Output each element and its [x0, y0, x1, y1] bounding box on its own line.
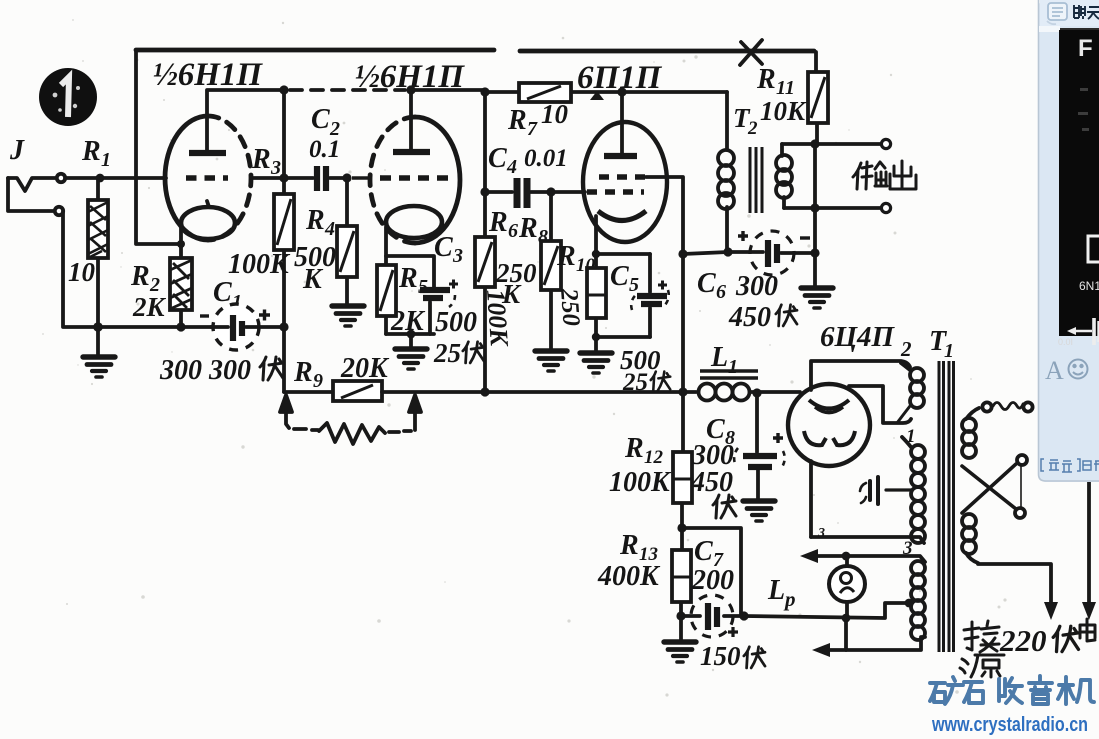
wire: mains lead bottom with down arrow — [978, 564, 1058, 620]
svg-text:450: 450 — [728, 302, 771, 333]
ground (C6/output) — [813, 253, 817, 286]
label mains source (Chinese) — [960, 655, 1004, 677]
T1 winding E (primary bottom) — [962, 514, 978, 563]
video white frame — [1088, 236, 1099, 262]
resistor R3 — [274, 194, 294, 250]
capacitor C3 (electrolytic bypass) — [420, 280, 458, 335]
node: C2 / R4 / V2 grid junction — [342, 173, 351, 182]
wire: top bus (left section) — [136, 48, 494, 53]
capacitor C8 (electrolytic filter) — [734, 393, 785, 499]
wire: output bottom line — [784, 206, 880, 210]
svg-text:6: 6 — [508, 220, 518, 242]
svg-text:6П1П: 6П1П — [577, 60, 663, 96]
wire: V2 cathode lead and R5/C3 top rail — [386, 227, 434, 288]
svg-text:300 300: 300 300 — [159, 355, 251, 386]
svg-text:½6Н1П: ½6Н1П — [153, 57, 263, 93]
wire: input signal line to V1 grid — [65, 176, 166, 180]
svg-text:R: R — [556, 241, 576, 272]
output terminal top — [881, 139, 890, 148]
triode V1 (1/2 6N1P) envelope — [165, 116, 208, 240]
svg-text:L: L — [710, 342, 728, 373]
svg-text:R: R — [624, 433, 644, 464]
wire: plate node column — [282, 90, 286, 392]
HV center-tap lead and chassis symbol — [860, 477, 911, 504]
label output (Chinese) — [853, 161, 916, 189]
svg-text:C: C — [311, 104, 330, 135]
node: R10 bottom junction — [592, 333, 600, 341]
choke L1 core — [700, 371, 758, 378]
svg-text:0.1: 0.1 — [309, 136, 340, 163]
svg-text:100K: 100K — [481, 288, 514, 348]
triode V2 (1/2 6N1P) envelope — [370, 117, 415, 243]
wire: mains lead right with down arrow — [1082, 482, 1096, 620]
svg-text:R: R — [305, 205, 325, 236]
node: cathode/R10 junction — [592, 250, 600, 258]
wire: V4 second plate link — [849, 386, 911, 423]
wire: lamp bottom to 6.3V line — [844, 618, 848, 650]
capacitor C4 — [485, 178, 551, 208]
svg-text:2: 2 — [747, 118, 758, 139]
ground (V3 cathode) — [594, 337, 598, 351]
output terminal bottom — [881, 203, 890, 212]
node: R1 top junction — [96, 174, 105, 183]
V1 anode — [189, 150, 226, 156]
wire: V4 cathode lead down — [809, 461, 813, 537]
transformer T2 primary winding — [718, 92, 734, 252]
arrow line (heater feed, left arrow) — [800, 549, 925, 563]
break mark X on top bus — [740, 40, 762, 65]
svg-text:4: 4 — [324, 218, 335, 240]
toolbar smiley icon — [1069, 360, 1088, 379]
svg-text:100K: 100K — [609, 467, 672, 498]
svg-text:C: C — [610, 261, 629, 292]
svg-text:100K: 100K — [228, 249, 291, 280]
wire: V2 anode lead up — [409, 90, 413, 149]
svg-text:10K: 10K — [760, 96, 807, 126]
V3 anode — [604, 153, 637, 159]
node: R13 bottom / C7 junction — [676, 611, 685, 620]
svg-text:12: 12 — [644, 447, 664, 468]
svg-text:R: R — [398, 263, 418, 294]
V3 control grid (dashed) — [587, 189, 644, 195]
wire: output top line — [782, 142, 880, 146]
chat panel title text (Chinese) — [1074, 5, 1099, 19]
T1 winding C (6.3V filament) — [911, 561, 925, 640]
node: C6 right junction — [810, 248, 819, 257]
svg-text:R: R — [488, 207, 508, 238]
svg-text:p: p — [783, 587, 796, 611]
node: cathode/top-bus tie junction — [177, 240, 185, 248]
wire: lamp bottom lead — [845, 602, 849, 617]
fuse and plug (mains top) — [982, 402, 1032, 411]
node: V2 anode top junction — [406, 85, 415, 94]
node: R1 bottom / ground junction — [93, 322, 103, 332]
ground (R8) — [535, 351, 567, 371]
V4 anode hooks — [804, 431, 826, 445]
svg-text:3: 3 — [452, 245, 463, 267]
wire: heater line to lamp and T1 — [744, 603, 909, 618]
V2 anode — [393, 149, 430, 155]
pilot lamp Lp — [829, 566, 865, 602]
wire: V4 plate lead to T1 top winding — [811, 361, 910, 390]
watermark logo text (Chinese) — [930, 676, 1094, 704]
svg-text:F: F — [1078, 35, 1093, 62]
wire: V1 cathode lead down to R2 — [179, 228, 183, 247]
svg-text:1: 1 — [944, 340, 954, 362]
resistor R13 — [672, 528, 691, 616]
svg-text:7: 7 — [527, 118, 538, 140]
value glyph V (C1) — [260, 357, 283, 380]
resistor R5 (cathode bias) — [377, 256, 396, 334]
video component glyph — [1067, 318, 1099, 345]
svg-text:200: 200 — [691, 565, 734, 596]
ground (input stage) — [96, 327, 100, 355]
svg-text:0.0I: 0.0I — [1058, 337, 1073, 347]
resistor R10 — [587, 254, 606, 337]
node: screen column on bottom bus — [678, 387, 687, 396]
node: output top junction — [810, 139, 819, 148]
screen bus wire (second rail) — [485, 90, 727, 94]
svg-text:2: 2 — [900, 337, 912, 361]
resistor R2 (hatched cathode resistor) — [170, 247, 192, 327]
svg-text:300: 300 — [735, 271, 778, 302]
choke L1 winding — [683, 384, 800, 401]
ad text line — [1041, 459, 1099, 472]
hum-balance arrow left — [280, 395, 292, 428]
svg-text:R: R — [756, 64, 776, 95]
svg-text:250: 250 — [555, 287, 585, 328]
svg-text:www.crystalradio.cn: www.crystalradio.cn — [931, 714, 1088, 736]
wire: R10/C5 bottom rail — [596, 335, 650, 339]
svg-text:C: C — [488, 143, 507, 174]
svg-text:1: 1 — [101, 149, 111, 171]
transformer T1 core — [939, 361, 954, 652]
svg-text:K: K — [302, 264, 324, 295]
node: output bottom junction — [810, 203, 819, 212]
svg-text:R: R — [293, 357, 313, 388]
bottom bus wire (left) — [284, 390, 333, 394]
svg-text:R: R — [518, 213, 538, 244]
svg-text:25: 25 — [622, 369, 648, 396]
svg-text:R: R — [619, 530, 639, 561]
wire: V3 anode lead up — [620, 92, 624, 153]
label connect 220V mains (Chinese) — [964, 621, 999, 652]
logo badge (black circle with figure) — [39, 68, 97, 126]
svg-text:C: C — [697, 268, 716, 299]
node: lamp top junction — [842, 552, 851, 561]
wire: C6 rail from screen column — [683, 252, 728, 254]
svg-text:2K: 2K — [132, 292, 167, 322]
chat panel background — [1038, 0, 1099, 482]
svg-text:C: C — [694, 536, 713, 567]
V4 filament arcs — [809, 400, 849, 409]
svg-text:6: 6 — [716, 281, 726, 303]
wire: V2 plate to C4 column — [411, 88, 485, 92]
wire: lamp top lead — [845, 556, 849, 566]
ground (R13/C7) — [679, 616, 683, 640]
svg-text:150: 150 — [700, 641, 741, 671]
svg-text:4: 4 — [506, 156, 517, 178]
hum-balance dashed/wavy link — [294, 429, 318, 430]
resistor R11 — [808, 52, 828, 144]
capacitor C1 (electrolytic, dashed circle) — [200, 304, 284, 350]
wire: grid node to plate-node column — [251, 176, 284, 180]
svg-text:L: L — [767, 575, 785, 606]
node: C7 output junction — [739, 611, 748, 620]
node: plate node at signal line — [279, 173, 288, 182]
svg-text:3: 3 — [270, 157, 281, 179]
svg-text:500: 500 — [435, 307, 477, 338]
ground (R4) — [332, 306, 364, 326]
chat panel titlebar icon — [1047, 3, 1067, 24]
node: R5/C3 ground junction — [407, 330, 416, 339]
capacitor C7 (electrolytic, dashed circle) — [681, 528, 744, 637]
bottom bus wire (center) — [382, 390, 683, 394]
capacitor C5 (electrolytic bypass) — [631, 254, 669, 337]
node: R6 lead on bus — [480, 387, 489, 396]
node: C1 plus junction — [279, 322, 288, 331]
node: C8 tap on B+ line — [752, 388, 761, 397]
T1 winding A (rectifier filament) — [883, 363, 924, 423]
node: R8 top junction — [546, 187, 555, 196]
svg-text:9: 9 — [313, 370, 323, 392]
T1 winding D (primary top) — [962, 408, 979, 458]
wire: jack sleeve down to ground rail — [63, 211, 97, 327]
wire: cathode ground rail to C1 — [98, 325, 211, 329]
node: screen column / C6 rail junction — [678, 249, 687, 258]
svg-text:450: 450 — [690, 467, 733, 498]
stray mark under V3 label — [590, 91, 604, 100]
svg-text:C: C — [213, 277, 232, 308]
wire: output right column — [813, 144, 817, 254]
resistor R7 (in screen bus) — [519, 83, 571, 102]
wire: V3 cathode lead down — [596, 216, 650, 254]
wire: cathode to T1 HV tap — [811, 537, 924, 543]
wire: C4 to V3 grid — [551, 190, 585, 194]
node: lamp bottom junction — [842, 614, 851, 623]
svg-text:R: R — [81, 136, 101, 167]
video window (black) — [1059, 30, 1099, 336]
rectifier tube V4 (6Ts4P) envelope — [788, 384, 870, 466]
capacitor C2 — [284, 166, 347, 191]
V3 screen grid (dashed) with lead right — [599, 174, 646, 180]
capacitor C6 (electrolytic, dashed circle) — [728, 231, 815, 275]
arrow line (6.3V bottom, left arrow) — [812, 637, 925, 657]
resistor R4 (grid leak) — [337, 178, 357, 305]
svg-text:5: 5 — [629, 274, 639, 296]
svg-text:10: 10 — [68, 257, 96, 287]
V1 grid (dashed) — [186, 175, 228, 181]
resistor R6 — [475, 237, 495, 287]
wire: V1 anode lead up and right — [207, 90, 284, 150]
V2 cathode (oval) — [386, 206, 442, 238]
ground (V2 cathode) — [409, 334, 413, 347]
svg-text:400K: 400K — [597, 561, 661, 592]
transformer T2 core — [750, 147, 762, 213]
svg-text:220: 220 — [999, 623, 1047, 658]
svg-text:A: A — [1045, 356, 1064, 385]
V2 grid (dashed) — [352, 176, 372, 179]
wire: dashed bus V1 plate to V2 plate — [290, 88, 405, 92]
resistor R12 — [673, 392, 692, 528]
T1 winding B (HV secondary) — [902, 437, 925, 543]
svg-text:C: C — [434, 232, 453, 263]
resistor R8 — [541, 192, 561, 350]
node: C4 left junction — [480, 187, 489, 196]
svg-text:1: 1 — [728, 356, 738, 378]
node: V3 anode top junction — [617, 87, 626, 96]
wire: C4 column (V2 plate feed) — [483, 92, 487, 392]
resistor R1 (hatched) — [88, 178, 108, 327]
ground (C8) — [743, 501, 775, 521]
transformer T2 secondary winding — [776, 144, 792, 208]
svg-text:R: R — [507, 105, 527, 136]
svg-text:25: 25 — [433, 338, 461, 368]
svg-text:0.01: 0.01 — [524, 145, 568, 172]
svg-text:J: J — [9, 135, 25, 166]
svg-text:R: R — [130, 261, 150, 292]
V3 cathode (arc) — [598, 211, 646, 221]
wire: screen column down to bus — [681, 254, 685, 392]
node: C4 left column top — [480, 87, 489, 96]
V1 cathode (oval) — [181, 207, 235, 239]
resistor R9 (in bus) — [333, 381, 382, 401]
node: V1 plate node top — [279, 85, 288, 94]
node: R2 bottom junction — [176, 322, 185, 331]
pentode V3 (6P1P) envelope — [583, 122, 667, 242]
node: R12/R13/C7 junction — [677, 523, 686, 532]
video faint marks — [1078, 88, 1089, 131]
voltage selector cross — [962, 455, 1027, 518]
hum-balance arrow right — [409, 395, 421, 430]
svg-text:6Ц4П: 6Ц4П — [820, 321, 896, 353]
wire: top bus left drop and tie to V1 cathode — [136, 51, 181, 244]
input jack plug — [8, 174, 65, 215]
node: C6 rail / primary bottom junction — [723, 247, 732, 256]
wire: R5/C3 bottom rail — [386, 332, 434, 336]
svg-text:R: R — [251, 144, 271, 175]
svg-text:6N1: 6N1 — [1079, 279, 1099, 293]
